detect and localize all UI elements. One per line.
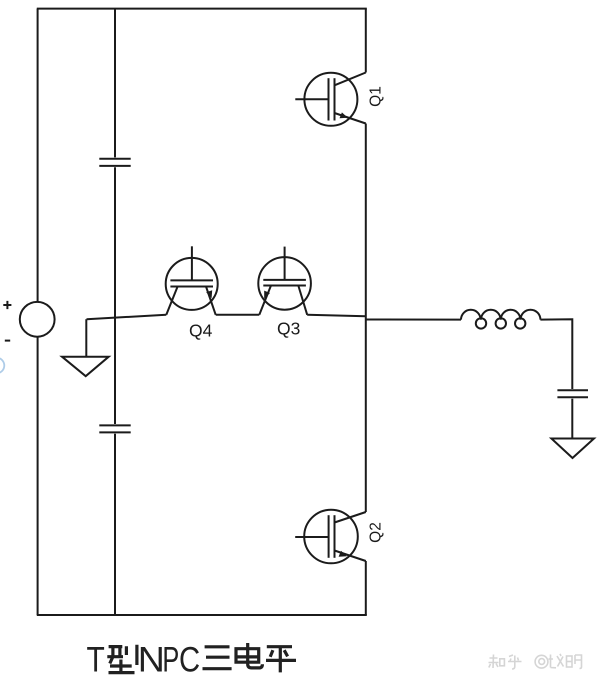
wire inner rail middle (114, 167, 116, 424)
wire right rail top (365, 9, 367, 73)
svg-text:T: T (87, 639, 105, 679)
wire right rail bottom (365, 561, 367, 615)
watermark @ (535, 655, 548, 668)
title char 三 (203, 647, 232, 669)
transistor Q1 (295, 73, 366, 126)
transistor Q4 (166, 246, 218, 314)
wire right rail middle (365, 124, 367, 513)
watermark avatar arc (0, 358, 4, 374)
node N wire (source to Q4) (87, 315, 167, 319)
wire output node to inductor (366, 319, 461, 321)
watermark char 明 (567, 656, 573, 667)
watermark char 乎 (508, 655, 522, 669)
ground left (62, 319, 109, 376)
watermark char 知 (489, 655, 499, 669)
title char 平 (266, 647, 296, 673)
wire bottom rail (37, 614, 367, 616)
wire inner rail lower (114, 434, 116, 615)
wire Q4 to Q3 (216, 314, 260, 316)
capacitor C2 (99, 425, 130, 432)
watermark text 知乎 @赵明 (489, 654, 582, 669)
svg-text:Q3: Q3 (277, 319, 300, 339)
capacitor C3 (557, 390, 588, 397)
wire left rail upper (37, 9, 39, 302)
svg-text:Q2: Q2 (367, 522, 384, 543)
svg-text:C: C (179, 639, 200, 679)
inductor L1 (461, 310, 540, 329)
svg-text:Q4: Q4 (189, 321, 213, 341)
wire inner rail upper (114, 9, 116, 158)
wire top rail (37, 8, 367, 10)
capacitor C1 (99, 159, 130, 166)
wire Q3 to output node (307, 315, 366, 317)
wire left rail lower (37, 337, 39, 615)
svg-text:Q1: Q1 (367, 86, 384, 107)
transistor Q3 (258, 247, 311, 315)
voltage source V1 (3, 301, 54, 341)
title: T型NPC三电平 (87, 639, 297, 679)
svg-text:N: N (138, 639, 165, 679)
transistor Q2 (295, 510, 366, 564)
ground right (551, 439, 594, 459)
watermark char 赵 (549, 654, 564, 668)
svg-text:P: P (162, 639, 179, 679)
wire inductor to output corner (540, 319, 572, 389)
title char 型 (107, 645, 137, 673)
wire C3 to ground (571, 399, 573, 439)
title char 电 (236, 643, 262, 668)
